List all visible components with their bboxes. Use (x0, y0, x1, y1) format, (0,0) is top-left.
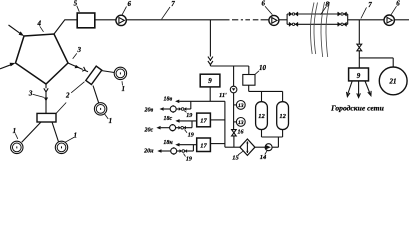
svg-text:7: 7 (368, 1, 372, 9)
svg-text:12: 12 (258, 113, 265, 120)
svg-text:15: 15 (232, 155, 239, 162)
svg-text:9: 9 (357, 72, 361, 80)
svg-text:19: 19 (188, 132, 194, 138)
svg-text:14: 14 (260, 154, 267, 161)
svg-text:13: 13 (238, 103, 244, 109)
svg-text:6: 6 (128, 0, 132, 8)
svg-text:3: 3 (77, 46, 82, 54)
svg-text:12: 12 (279, 113, 286, 120)
svg-text:17: 17 (200, 118, 207, 125)
svg-text:1: 1 (122, 85, 126, 93)
svg-text:17: 17 (200, 142, 207, 149)
svg-text:3: 3 (28, 90, 33, 98)
svg-text:18в: 18в (163, 96, 172, 102)
svg-text:21: 21 (389, 78, 397, 86)
svg-text:1: 1 (109, 117, 113, 125)
svg-text:5: 5 (74, 0, 78, 7)
svg-text:20в: 20в (143, 107, 153, 113)
svg-text:8: 8 (325, 0, 329, 8)
svg-text:1: 1 (73, 131, 77, 139)
svg-text:16: 16 (238, 130, 244, 136)
svg-text:18н: 18н (163, 140, 173, 146)
svg-text:6: 6 (261, 0, 265, 8)
svg-text:9: 9 (208, 77, 212, 85)
svg-text:13: 13 (238, 120, 244, 126)
svg-text:1: 1 (13, 127, 17, 135)
svg-text:6: 6 (396, 0, 400, 8)
svg-text:18с: 18с (163, 116, 172, 122)
svg-text:2: 2 (65, 92, 70, 100)
svg-text:19: 19 (186, 157, 192, 162)
svg-text:7: 7 (171, 0, 175, 8)
svg-text:4: 4 (36, 20, 41, 28)
svg-text:Городские сети: Городские сети (330, 103, 384, 112)
svg-text:20с: 20с (143, 128, 153, 134)
svg-text:20н: 20н (143, 148, 154, 154)
svg-text:10: 10 (259, 64, 267, 72)
svg-text:11′: 11′ (219, 92, 227, 99)
svg-text:19: 19 (186, 113, 192, 119)
